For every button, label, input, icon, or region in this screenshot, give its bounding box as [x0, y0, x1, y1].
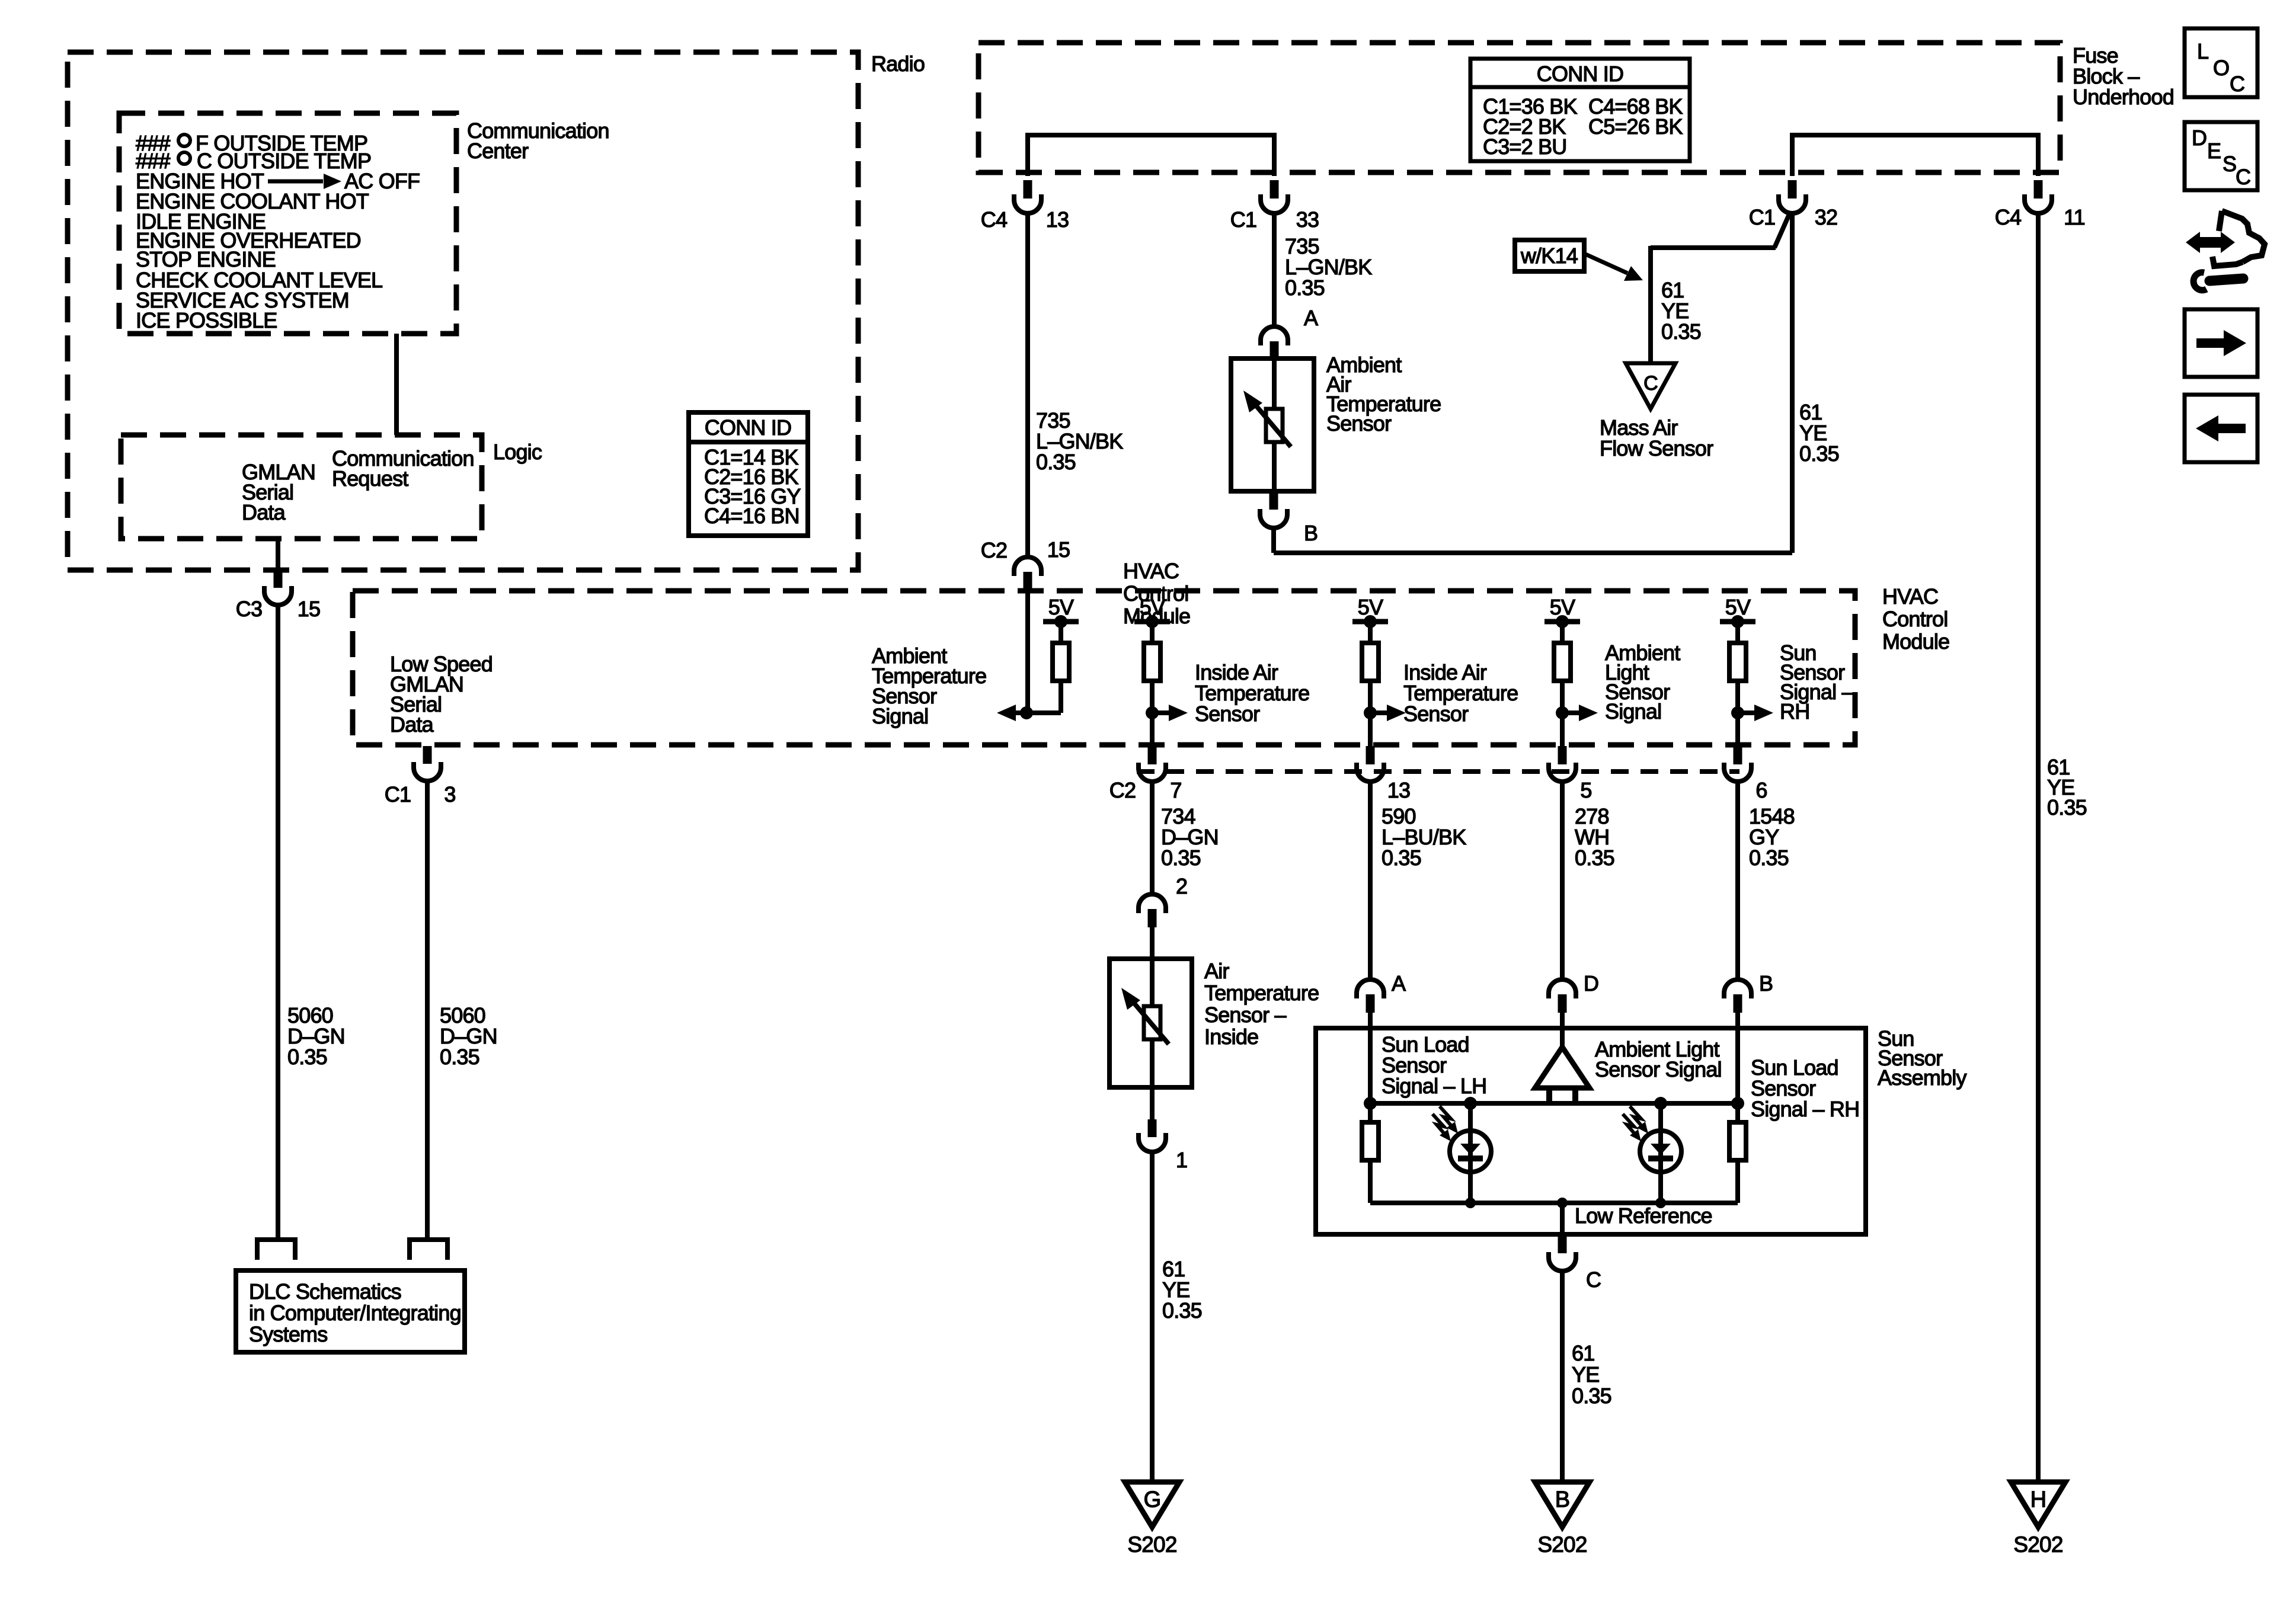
svg-text:ICE POSSIBLE: ICE POSSIBLE [136, 308, 277, 332]
svg-text:S202: S202 [2013, 1532, 2062, 1557]
svg-text:in Computer/Integrating: in Computer/Integrating [249, 1301, 461, 1325]
svg-text:A: A [1304, 306, 1318, 330]
svg-text:w/K14: w/K14 [1520, 244, 1578, 268]
svg-text:Flow Sensor: Flow Sensor [1600, 436, 1713, 460]
svg-text:G: G [1144, 1487, 1161, 1512]
svg-text:Signal: Signal [1605, 699, 1661, 724]
svg-text:C1: C1 [385, 782, 411, 806]
svg-text:Sensor: Sensor [1326, 411, 1392, 436]
svg-text:0.35: 0.35 [1749, 846, 1789, 870]
svg-text:Assembly: Assembly [1878, 1065, 1966, 1090]
svg-text:0.35: 0.35 [287, 1045, 327, 1069]
svg-text:Underhood: Underhood [2073, 85, 2174, 109]
svg-text:Signal: Signal [872, 704, 928, 728]
svg-text:S202: S202 [1127, 1532, 1176, 1557]
svg-text:13: 13 [1387, 778, 1410, 802]
svg-text:C4: C4 [981, 207, 1007, 232]
svg-text:0.35: 0.35 [1036, 450, 1076, 474]
svg-text:B: B [1304, 521, 1318, 545]
svg-text:2: 2 [1176, 874, 1187, 898]
svg-text:5: 5 [1580, 778, 1591, 802]
svg-text:Sensor –: Sensor – [1204, 1003, 1286, 1027]
svg-text:Sensor: Sensor [1195, 702, 1260, 726]
svg-text:O: O [2213, 56, 2229, 80]
svg-text:C: C [1586, 1267, 1601, 1292]
svg-text:1: 1 [1176, 1148, 1187, 1172]
svg-text:S: S [2223, 152, 2236, 176]
svg-text:C: C [2230, 72, 2244, 96]
svg-text:C5=26 BK: C5=26 BK [1588, 114, 1683, 139]
svg-text:6: 6 [1755, 778, 1767, 802]
svg-text:0.35: 0.35 [1661, 319, 1701, 344]
svg-text:3: 3 [444, 782, 455, 806]
svg-text:E: E [2207, 139, 2221, 163]
svg-text:C3=2 BU: C3=2 BU [1483, 135, 1566, 159]
svg-text:C: C [2236, 165, 2250, 189]
svg-text:Control: Control [1882, 607, 1948, 631]
svg-text:RH: RH [1780, 699, 1809, 724]
svg-text:Signal – LH: Signal – LH [1382, 1074, 1486, 1098]
svg-text:Sensor Signal: Sensor Signal [1595, 1057, 1722, 1081]
svg-text:0.35: 0.35 [1162, 1298, 1202, 1323]
svg-text:32: 32 [1815, 205, 1837, 229]
svg-text:C4=16 BN: C4=16 BN [704, 504, 800, 528]
svg-text:0.35: 0.35 [1382, 846, 1421, 870]
svg-text:C1: C1 [1230, 207, 1256, 232]
svg-text:0.35: 0.35 [1285, 276, 1325, 300]
svg-text:HVAC: HVAC [1882, 584, 1938, 609]
svg-text:Center: Center [467, 139, 529, 163]
svg-text:Data: Data [242, 500, 286, 524]
svg-text:C1: C1 [1749, 205, 1775, 229]
svg-text:C: C [1643, 372, 1658, 395]
svg-text:C2: C2 [1109, 778, 1136, 802]
svg-text:0.35: 0.35 [1799, 441, 1839, 466]
svg-text:CONN ID: CONN ID [1537, 62, 1623, 86]
svg-text:0.35: 0.35 [1161, 846, 1201, 870]
svg-text:Systems: Systems [249, 1322, 327, 1346]
svg-text:Air: Air [1204, 959, 1229, 983]
svg-text:0.35: 0.35 [440, 1045, 479, 1069]
svg-text:Module: Module [1882, 629, 1949, 654]
svg-text:11: 11 [2064, 205, 2085, 229]
svg-text:15: 15 [1047, 537, 1070, 562]
svg-text:CONN ID: CONN ID [705, 415, 791, 440]
svg-text:S202: S202 [1537, 1532, 1587, 1557]
svg-text:33: 33 [1296, 207, 1319, 232]
svg-text:0.35: 0.35 [2047, 795, 2087, 820]
svg-text:Request: Request [332, 466, 408, 491]
svg-text:Temperature: Temperature [1204, 981, 1319, 1005]
svg-text:0.35: 0.35 [1575, 846, 1614, 870]
svg-text:HVAC: HVAC [1123, 559, 1179, 583]
svg-text:DLC Schematics: DLC Schematics [249, 1279, 401, 1304]
svg-text:Inside: Inside [1204, 1025, 1258, 1049]
svg-text:Sensor: Sensor [1403, 702, 1469, 726]
svg-text:D: D [1584, 971, 1598, 996]
svg-text:Signal – RH: Signal – RH [1751, 1097, 1859, 1121]
svg-text:0.35: 0.35 [1572, 1384, 1611, 1408]
svg-text:61: 61 [1572, 1341, 1594, 1365]
svg-text:Low Reference: Low Reference [1575, 1204, 1712, 1228]
svg-text:7: 7 [1170, 778, 1181, 802]
svg-text:Logic: Logic [493, 440, 542, 464]
svg-text:Radio: Radio [871, 52, 925, 76]
svg-text:C2: C2 [981, 538, 1007, 562]
svg-text:13: 13 [1046, 207, 1069, 232]
svg-text:B: B [1555, 1487, 1570, 1512]
svg-text:L: L [2197, 39, 2208, 63]
svg-text:B: B [1759, 971, 1773, 996]
svg-text:15: 15 [298, 597, 320, 621]
svg-text:D: D [2192, 126, 2207, 150]
svg-text:C4: C4 [1995, 205, 2021, 229]
svg-text:Data: Data [390, 712, 434, 737]
svg-text:H: H [2030, 1487, 2046, 1512]
svg-text:C3: C3 [236, 597, 262, 621]
svg-text:YE: YE [1572, 1362, 1599, 1387]
svg-text:A: A [1392, 971, 1406, 996]
